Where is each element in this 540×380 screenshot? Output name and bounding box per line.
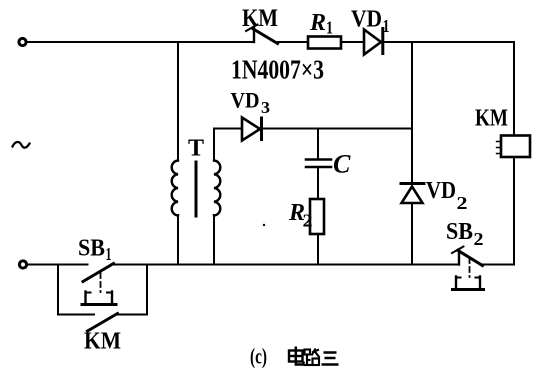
label T [188,136,204,162]
label C [333,150,351,179]
wire right rail upper [513,42,515,136]
label R2 [288,200,313,231]
wire mid rail left of VD3 [214,128,242,130]
wire vertical drop at node x=412 [411,42,413,183]
resistor R1 [308,37,341,49]
wire top rail right of VD1 [382,41,514,43]
svg-text:KM: KM [242,5,278,32]
label R1 [309,10,333,38]
terminal top-left [19,38,26,45]
wire R2 bottom lead [317,234,319,265]
svg-text:2: 2 [303,211,313,231]
wire capacitor branch top [317,129,319,159]
svg-text:VD: VD [351,7,382,33]
wire VD2 bottom lead [411,203,413,265]
resistor R2 [310,199,324,234]
label VD1 [351,7,390,37]
coil KM (contactor coil) [497,136,531,158]
svg-text:1: 1 [106,244,112,264]
svg-text:KM: KM [84,329,121,355]
pushbutton SB1 (normally-open) [82,264,116,305]
svg-text:SB: SB [78,236,105,262]
contact KM (parallel, normally-open) [88,314,118,332]
label 1N4007x3 [231,55,324,85]
svg-text:C: C [333,150,351,179]
svg-text:KM: KM [475,106,508,132]
stray dot [263,224,265,226]
wire SB1 parallel box left side [57,265,59,315]
label SB2 [446,219,484,249]
svg-text:(c): (c) [250,344,267,369]
wire bottom rail right of SB2 [483,264,515,266]
svg-text:3: 3 [261,98,270,117]
svg-text:VD: VD [426,178,456,204]
label KM (top contact) [242,5,278,32]
wire SB1 parallel box right side [146,265,148,315]
wire bottom rail left of SB1 [27,264,88,266]
svg-text:1: 1 [326,18,333,38]
wire top rail between KM and R1 [277,41,309,43]
wire transformer secondary top lead [213,129,215,161]
svg-text:R: R [309,10,326,36]
wire right rail lower [513,157,515,265]
svg-text:1: 1 [383,16,390,36]
label KM (parallel contact) [84,329,121,355]
label VD2 [426,178,468,213]
svg-text:2: 2 [457,193,468,213]
caption hanzi san [322,353,339,365]
transformer T core [195,162,198,216]
pushbutton SB2 (normally-open) [452,247,484,290]
wire top rail between R1 and VD1 [341,41,364,43]
caption hanzi lu [304,349,320,366]
svg-text:2: 2 [474,229,484,249]
diode VD2 [401,184,424,204]
svg-text:SB: SB [446,219,473,245]
label VD3 [231,88,271,118]
diode VD3 [242,118,262,141]
transformer T primary winding [172,161,178,216]
wire transformer primary bottom lead [177,215,179,265]
wire top rail left [27,41,255,43]
caption (c) [250,344,267,369]
diode VD1 [364,29,383,55]
label KM (coil) [475,106,508,132]
svg-text:T: T [188,136,204,162]
label SB1 [78,236,112,265]
wire parallel branch bottom left [58,314,94,316]
svg-text:1N4007×3: 1N4007×3 [231,55,324,85]
caption hanzi dian [289,347,304,365]
wire mid rail right of VD3 [261,128,412,130]
capacitor C [306,160,331,168]
transformer T secondary winding [214,161,220,216]
svg-text:VD: VD [231,88,260,113]
contact KM (top, normally-open) [246,25,278,44]
AC source symbol ~ [13,142,30,148]
wire capacitor to R2 [317,168,319,199]
terminal bottom-left [19,261,26,268]
wire transformer primary top lead [177,42,179,161]
wire transformer secondary bottom lead [213,215,215,265]
wire bottom rail middle [111,264,459,266]
wire parallel branch bottom right [116,314,148,316]
